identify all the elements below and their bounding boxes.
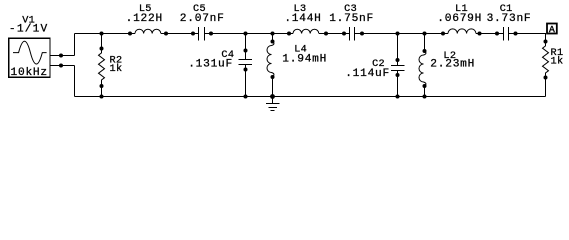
svg-text:1k: 1k <box>551 56 564 68</box>
svg-text:.0679H: .0679H <box>437 13 482 25</box>
svg-text:1.75nF: 1.75nF <box>329 13 374 25</box>
svg-text:-1/1V: -1/1V <box>9 24 49 36</box>
svg-text:10kHz: 10kHz <box>11 67 48 79</box>
svg-text:.114uF: .114uF <box>345 68 390 80</box>
svg-text:2.07nF: 2.07nF <box>180 13 225 25</box>
svg-text:.122H: .122H <box>126 13 163 25</box>
svg-text:1k: 1k <box>110 63 123 75</box>
svg-text:1.94mH: 1.94mH <box>282 54 327 66</box>
svg-text:3.73nF: 3.73nF <box>487 13 532 25</box>
svg-text:2.23mH: 2.23mH <box>430 59 475 71</box>
svg-text:.131uF: .131uF <box>188 59 233 71</box>
svg-text:A: A <box>549 24 555 35</box>
svg-text:.144H: .144H <box>284 13 321 25</box>
